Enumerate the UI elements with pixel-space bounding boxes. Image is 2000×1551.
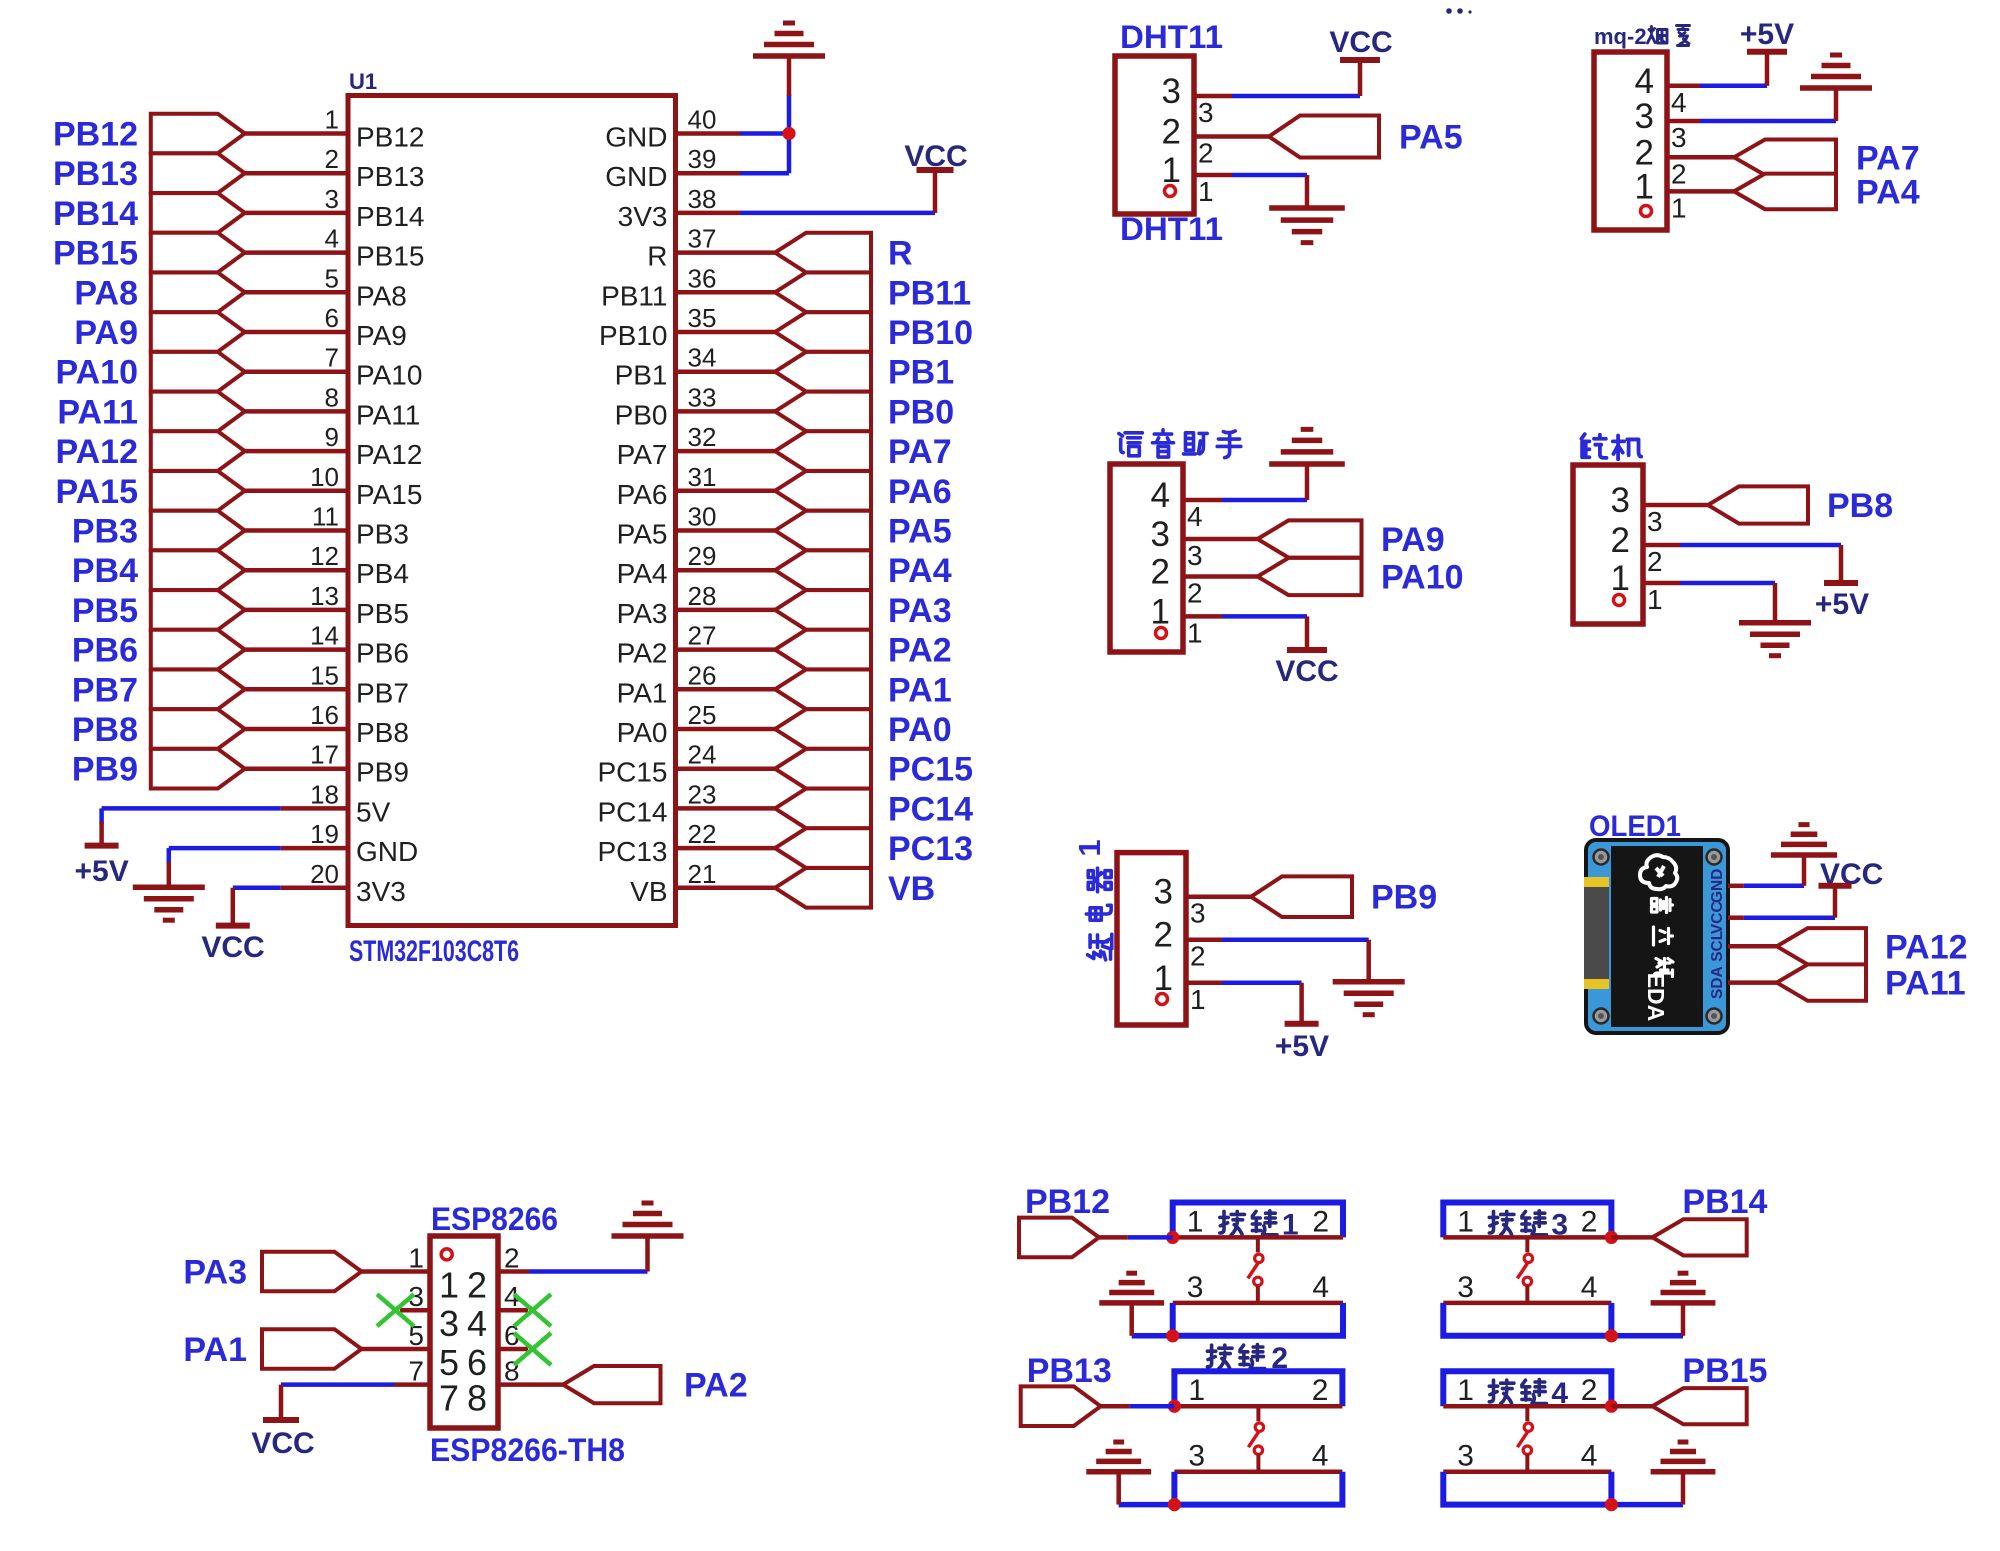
svg-text:PA8: PA8 <box>356 280 407 311</box>
button1 按键1 wire button bottom loop (blue) <box>1173 1303 1343 1336</box>
wire pin 9 to port flag <box>245 449 348 454</box>
port flag PA6 (right, pin 31) <box>775 471 871 511</box>
wire pin 34 to port flag <box>676 369 776 374</box>
button2 按键2 ground (button2 按键2) <box>1086 1469 1151 1475</box>
wire pin 40 blue <box>740 131 789 136</box>
svg-text:ESP8266: ESP8266 <box>431 1201 558 1237</box>
wire pin 25 to port flag <box>676 727 776 732</box>
ground (servo) <box>1739 620 1811 626</box>
svg-text:3: 3 <box>1457 1271 1474 1304</box>
wire pin 19 blue <box>169 846 281 851</box>
svg-text:PA4: PA4 <box>1856 173 1920 211</box>
svg-text:30: 30 <box>688 502 717 532</box>
svg-text:3: 3 <box>1187 540 1203 571</box>
wire DHT11 pin3 blue <box>1232 94 1360 99</box>
svg-text:PB12: PB12 <box>53 116 138 154</box>
wire relay +5V drop <box>1299 983 1304 1024</box>
svg-text:PA10: PA10 <box>1381 559 1464 597</box>
svg-text:PB4: PB4 <box>356 558 409 589</box>
svg-text:SDA: SDA <box>1709 966 1726 999</box>
wire servo pin1 stub <box>1643 581 1680 586</box>
button2 按键2 button label 按键2 <box>1207 1345 1232 1368</box>
OLED1 logo (JLC cloud) <box>1640 855 1677 889</box>
svg-text:PA6: PA6 <box>617 479 668 510</box>
svg-text:4: 4 <box>1151 476 1170 515</box>
wire servo pin2 stub <box>1643 543 1680 548</box>
svg-text:PB13: PB13 <box>1027 1352 1112 1390</box>
wire pin 23 to port flag <box>676 806 776 811</box>
wire pin 16 to port flag <box>245 727 348 732</box>
svg-text:3: 3 <box>439 1303 459 1344</box>
svg-text:+5V: +5V <box>74 855 128 888</box>
svg-text:1: 1 <box>1671 192 1687 223</box>
port flag PA1 <box>262 1329 362 1369</box>
button2 按键2 wire button top loop (blue) <box>1174 1371 1342 1406</box>
svg-text:PA5: PA5 <box>617 519 668 550</box>
wire OLED GND blue <box>1744 884 1804 889</box>
button1 按键1 junction button1 按键1 pin3-4 <box>1166 1329 1179 1342</box>
svg-text:PB9: PB9 <box>72 751 138 789</box>
wire ESP pin7 stub <box>394 1382 430 1387</box>
svg-text:2: 2 <box>1581 1205 1598 1238</box>
OLED1 screen text 嘉立创EDA (vertical) <box>1652 898 1673 913</box>
button3 按键3 wire gnd riser <box>1681 1303 1686 1336</box>
wire voice pin3 to flag <box>1183 537 1258 542</box>
port flag PA3 (right, pin 28) <box>775 590 871 630</box>
power flag +5V (left) <box>85 843 119 849</box>
port flag PA3 <box>262 1252 362 1292</box>
svg-text:1: 1 <box>1198 176 1214 207</box>
svg-text:PB7: PB7 <box>72 671 138 709</box>
OLED1 corner screws <box>1594 850 1609 865</box>
wire servo pin2 blue <box>1680 543 1841 548</box>
port flag PB14 (left, pin 3) <box>151 193 245 233</box>
svg-text:PA3: PA3 <box>183 1254 247 1292</box>
wire pin 18 stub <box>281 806 348 811</box>
power flag VCC (ESP8266) <box>263 1417 299 1423</box>
svg-text:7: 7 <box>408 1356 424 1387</box>
wire ESP pin2 blue <box>529 1269 648 1274</box>
wire pin 27 to port flag <box>676 647 776 652</box>
wire MQ-2 gnd riser <box>1834 88 1839 121</box>
port flag PA9 (left, pin 6) <box>151 312 245 352</box>
svg-text:3: 3 <box>1611 481 1630 520</box>
wire pin 35 to port flag <box>676 330 776 335</box>
svg-text:PB13: PB13 <box>356 161 425 192</box>
wire PA1 to ESP pin5 <box>362 1347 431 1352</box>
port flag PA8 (left, pin 5) <box>151 273 245 313</box>
svg-text:PA1: PA1 <box>183 1331 247 1369</box>
svg-text:31: 31 <box>688 462 717 492</box>
svg-text:PB14: PB14 <box>53 195 138 233</box>
wire PA3 to ESP pin1 <box>362 1269 431 1274</box>
svg-text:VCC: VCC <box>251 1427 314 1460</box>
svg-text:PB11: PB11 <box>888 274 971 312</box>
wire MQ-2 pin1 to flag <box>1667 189 1734 194</box>
button3 按键3 wire gnd branch (blue) <box>1443 1333 1683 1339</box>
wire servo pin1 blue <box>1680 581 1775 586</box>
svg-text:R: R <box>888 235 913 273</box>
wire DHT11 VCC riser <box>1358 60 1363 96</box>
svg-text:PB6: PB6 <box>72 632 138 670</box>
svg-text:3: 3 <box>1190 898 1206 929</box>
svg-text:20: 20 <box>310 859 339 889</box>
svg-text:4: 4 <box>1581 1440 1598 1473</box>
button1 按键1 junction button1 按键1 pin1-2 <box>1166 1231 1179 1244</box>
svg-text:PA2: PA2 <box>617 638 668 669</box>
svg-text:26: 26 <box>688 660 717 690</box>
connector voice-assistant body <box>1110 464 1183 652</box>
svg-text:3: 3 <box>1187 1271 1204 1304</box>
port flag PC15 (right, pin 24) <box>775 749 871 789</box>
svg-text:3V3: 3V3 <box>618 201 668 232</box>
svg-text:PA7: PA7 <box>1856 139 1920 177</box>
svg-text:2: 2 <box>467 1265 487 1306</box>
svg-text:PA9: PA9 <box>74 314 138 352</box>
power flag VCC (voice) <box>1287 647 1327 653</box>
svg-text:PA3: PA3 <box>888 592 952 630</box>
svg-text:1: 1 <box>1457 1374 1474 1407</box>
svg-text:PA11: PA11 <box>57 393 138 431</box>
ground (voice-assistant) <box>1269 461 1345 467</box>
svg-text:PC14: PC14 <box>597 796 667 827</box>
svg-text:2: 2 <box>1187 578 1203 609</box>
svg-text:1: 1 <box>1647 584 1663 615</box>
button4 按键4 junction button4 按键4 pin1-2 <box>1605 1400 1618 1413</box>
wire relay gnd drop <box>1366 940 1371 982</box>
wire pin 4 to port flag <box>245 250 348 255</box>
svg-text:VCC: VCC <box>1709 901 1726 934</box>
svg-text:2: 2 <box>1190 941 1206 972</box>
svg-text:PB13: PB13 <box>53 155 138 193</box>
svg-text:21: 21 <box>688 859 717 889</box>
svg-text:2: 2 <box>325 144 339 174</box>
svg-text:4: 4 <box>1581 1271 1598 1304</box>
svg-text:12: 12 <box>310 541 339 571</box>
connector DHT11 body <box>1115 56 1194 214</box>
button1 按键1 switch pins 3-4 line <box>1173 1301 1343 1306</box>
svg-text:1: 1 <box>1187 1205 1204 1238</box>
ground (OLED) <box>1771 852 1837 858</box>
svg-text:PA1: PA1 <box>617 677 668 708</box>
button4 按键4 switch pins 3-4 line <box>1443 1469 1611 1474</box>
svg-text:37: 37 <box>688 224 717 254</box>
svg-text:PA10: PA10 <box>55 354 138 392</box>
port flag PA10 <box>1258 558 1362 595</box>
wire ESP pin6 stub <box>498 1347 528 1352</box>
svg-text:PB3: PB3 <box>72 513 138 551</box>
wire ESP pin4 stub <box>498 1308 528 1313</box>
wire relay pin1 blue <box>1222 981 1302 986</box>
power flag +5V (MQ-2) <box>1747 49 1787 55</box>
button1 按键1 wire button top loop (blue) <box>1173 1203 1343 1238</box>
svg-text:PA0: PA0 <box>617 717 668 748</box>
svg-text:+5V: +5V <box>1275 1030 1329 1063</box>
svg-text:18: 18 <box>310 779 339 809</box>
wire pin 10 to port flag <box>245 489 348 494</box>
svg-text:PB7: PB7 <box>356 677 409 708</box>
svg-text:PA4: PA4 <box>888 552 952 590</box>
button2 按键2 switch pins 1-2 line <box>1174 1404 1342 1409</box>
port flag PA15 (left, pin 10) <box>151 471 245 511</box>
wire ESP pin8 to flag <box>498 1382 563 1387</box>
power flag VCC (right of U1) <box>917 167 954 173</box>
svg-text:3: 3 <box>1198 97 1214 128</box>
wire MQ-2 pin3 blue <box>1700 119 1836 124</box>
svg-text:8: 8 <box>467 1378 487 1419</box>
button2 按键2 junction button2 按键2 pin1-2 <box>1168 1400 1181 1413</box>
button1 按键1 port flag PB12 <box>1019 1218 1099 1258</box>
port flag PB8 <box>1708 486 1808 523</box>
button4 按键4 wire button bottom loop (blue) <box>1443 1472 1611 1505</box>
svg-text:3: 3 <box>1151 515 1170 554</box>
svg-text:35: 35 <box>688 303 717 333</box>
svg-text:PA5: PA5 <box>888 513 952 551</box>
wire DHT11 pin1 stub <box>1194 173 1232 178</box>
button2 按键2 wire gnd branch (blue) <box>1119 1502 1175 1508</box>
svg-text:7: 7 <box>325 343 339 373</box>
svg-text:2: 2 <box>1312 1205 1329 1238</box>
ground (MQ-2, above wire) <box>1800 85 1872 91</box>
svg-text:38: 38 <box>688 184 717 214</box>
wire pin 3 to port flag <box>245 211 348 216</box>
button3 按键3 port flag PB14 <box>1652 1219 1746 1255</box>
port flag PB8 (left, pin 16) <box>151 709 245 749</box>
svg-text:32: 32 <box>688 422 717 452</box>
svg-text:PA11: PA11 <box>356 399 420 430</box>
button1 按键1 ground (button1 按键1) <box>1099 1300 1164 1306</box>
port flag PB7 (left, pin 15) <box>151 670 245 710</box>
svg-text:1: 1 <box>439 1265 459 1306</box>
button4 按键4 switch pins 1-2 line <box>1443 1404 1611 1409</box>
svg-text:PB11: PB11 <box>601 280 667 311</box>
wire pin 14 to port flag <box>245 647 348 652</box>
button2 按键2 port flag PB13 <box>1021 1386 1101 1426</box>
wire voice pin4 stub <box>1183 498 1222 503</box>
svg-text:3V3: 3V3 <box>356 876 406 907</box>
svg-text:PA4: PA4 <box>617 558 668 589</box>
svg-text:1: 1 <box>1190 984 1206 1015</box>
button4 按键4 port flag PB15 <box>1652 1388 1746 1424</box>
svg-text:+5V: +5V <box>1740 18 1794 51</box>
wire pin 32 to port flag <box>676 449 776 454</box>
svg-text:2: 2 <box>1151 553 1170 592</box>
button2 按键2 wire flag to junction <box>1101 1404 1130 1409</box>
wire ESP gnd riser <box>645 1236 650 1272</box>
wire ESP pin3 stub <box>400 1308 430 1313</box>
connector MQ-2 body <box>1594 52 1667 230</box>
relay pin 1 indicator <box>1157 994 1168 1005</box>
svg-text:PA3: PA3 <box>617 598 668 629</box>
port flag VB (right, pin 21) <box>775 868 871 908</box>
ESP8266 pin 1 indicator <box>441 1249 452 1260</box>
IC U1 STM32F103C8T6 body <box>348 96 676 926</box>
port flag PA10 (left, pin 7) <box>151 352 245 392</box>
decor dots <box>1446 8 1452 14</box>
svg-text:4: 4 <box>1312 1440 1329 1473</box>
svg-text:VCC: VCC <box>201 931 264 964</box>
wire MQ-2 pin4 blue <box>1700 84 1767 89</box>
svg-text:1: 1 <box>1635 167 1654 206</box>
svg-text:7: 7 <box>439 1378 459 1419</box>
button4 按键4 ground (button4 按键4) <box>1651 1469 1716 1475</box>
port flag PA2 (right, pin 27) <box>775 630 871 670</box>
wire pin 39 stub <box>676 171 741 176</box>
wire pin 18 blue <box>102 806 281 811</box>
port flag PB0 (right, pin 33) <box>775 392 871 432</box>
wire pin 7 to port flag <box>245 369 348 374</box>
port flag PA5 (right, pin 30) <box>775 511 871 551</box>
svg-text:5V: 5V <box>356 796 391 827</box>
svg-text:R: R <box>647 241 667 272</box>
svg-text:PA6: PA6 <box>888 473 952 511</box>
port flag PB5 (left, pin 13) <box>151 590 245 630</box>
wire pin 11 to port flag <box>245 528 348 533</box>
svg-text:1: 1 <box>1151 592 1170 631</box>
button4 按键4 wire gnd riser <box>1681 1472 1686 1505</box>
svg-text:3: 3 <box>1188 1440 1205 1473</box>
power flag VCC (left) <box>216 923 250 929</box>
port flag R (right, pin 37) <box>775 233 871 273</box>
svg-text:PB4: PB4 <box>72 552 138 590</box>
svg-text:17: 17 <box>310 740 339 770</box>
wire MQ-2 +5V riser <box>1765 52 1770 86</box>
button3 按键3 switch actuator <box>1525 1237 1529 1252</box>
wire servo pin3 to flag <box>1643 503 1708 508</box>
wire pin 39 blue <box>740 171 789 176</box>
ground (ESP8266) <box>612 1233 684 1239</box>
junction GND node <box>782 127 795 140</box>
svg-text:PB9: PB9 <box>1371 879 1437 917</box>
svg-text:U1: U1 <box>349 69 377 94</box>
svg-text:GND: GND <box>605 122 667 153</box>
wire pin 8 to port flag <box>245 409 348 414</box>
wire VCC riser <box>933 170 938 213</box>
svg-text:SCL: SCL <box>1709 931 1726 962</box>
svg-text:29: 29 <box>688 541 717 571</box>
ground (top, above U1) <box>753 53 825 59</box>
port flag PA5 <box>1269 116 1379 158</box>
wire voice VCC drop <box>1305 616 1310 650</box>
port flag PB15 (left, pin 4) <box>151 233 245 273</box>
svg-text:19: 19 <box>310 819 339 849</box>
svg-text:PB9: PB9 <box>356 757 409 788</box>
wire relay pin1 stub <box>1186 981 1222 986</box>
wire pin 22 to port flag <box>676 846 776 851</box>
svg-text:STM32F103C8T6: STM32F103C8T6 <box>349 935 519 968</box>
button4 按键4 switch actuator <box>1525 1406 1529 1421</box>
wire OLED gnd riser <box>1802 855 1807 886</box>
svg-text:8: 8 <box>325 382 339 412</box>
svg-text:GND: GND <box>356 836 418 867</box>
connector relay body <box>1117 853 1186 1025</box>
wire pin 40 stub <box>676 131 741 136</box>
connector voice-assistant title 语音助手 <box>1119 433 1143 456</box>
svg-text:PA9: PA9 <box>356 320 407 351</box>
svg-text:3: 3 <box>1162 72 1181 111</box>
port flag PB12 (left, pin 1) <box>151 114 245 154</box>
ground (below pin 19) <box>133 884 205 890</box>
wire pin 26 to port flag <box>676 687 776 692</box>
svg-text:DHT11: DHT11 <box>1120 19 1223 55</box>
ground (DHT11) <box>1269 205 1345 211</box>
wire MQ-2 pin4 stub <box>1667 84 1700 89</box>
svg-text:2: 2 <box>1581 1374 1598 1407</box>
port flag PB13 (left, pin 2) <box>151 153 245 193</box>
power flag +5V (servo) <box>1824 580 1858 586</box>
svg-text:25: 25 <box>688 700 717 730</box>
button1 按键1 button label 按键1 <box>1220 1211 1245 1234</box>
svg-text:PB12: PB12 <box>1025 1183 1110 1221</box>
port flag PB11 (right, pin 36) <box>775 273 871 313</box>
wire DHT11 gnd drop <box>1305 175 1310 208</box>
no-connect X pin3 <box>377 1294 414 1326</box>
wire pin 20 stub <box>281 886 348 891</box>
port flag PA1 (right, pin 26) <box>775 670 871 710</box>
svg-text:GND: GND <box>1709 869 1726 903</box>
ground (relay) <box>1333 979 1405 985</box>
button3 按键3 ground (button3 按键3) <box>1651 1300 1716 1306</box>
svg-text:PC15: PC15 <box>888 751 973 789</box>
svg-text:4: 4 <box>467 1303 487 1344</box>
port flag PB6 (left, pin 14) <box>151 630 245 670</box>
port flag PA4 (right, pin 29) <box>775 550 871 590</box>
svg-text:11: 11 <box>312 502 339 532</box>
svg-text:VCC: VCC <box>904 140 967 173</box>
wire voice pin1 blue <box>1222 614 1307 619</box>
wire OLED VCC stub <box>1728 915 1744 920</box>
svg-text:4: 4 <box>1187 501 1203 532</box>
svg-text:PB12: PB12 <box>356 122 425 153</box>
wire pin 37 to port flag <box>676 250 776 255</box>
wire ESP VCC drop <box>279 1385 284 1420</box>
MQ-2 pin 1 indicator <box>1641 206 1652 217</box>
button3 按键3 wire flag to junction <box>1611 1235 1652 1240</box>
port flag PA11 (left, pin 8) <box>151 392 245 432</box>
svg-text:VCC: VCC <box>1275 655 1338 688</box>
wire pin 24 to port flag <box>676 766 776 771</box>
svg-text:3: 3 <box>1671 122 1687 153</box>
port flag PA7 <box>1734 140 1836 176</box>
wire ESP pin7 blue <box>281 1382 394 1387</box>
svg-text:39: 39 <box>688 144 717 174</box>
svg-text:PA7: PA7 <box>617 439 668 470</box>
svg-text:2: 2 <box>1312 1374 1329 1407</box>
button1 按键1 switch pins 1-2 line <box>1173 1235 1343 1240</box>
wire servo +5V drop <box>1839 545 1844 583</box>
svg-text:3: 3 <box>1647 506 1663 537</box>
svg-text:PA2: PA2 <box>684 1367 748 1405</box>
svg-text:40: 40 <box>688 105 717 135</box>
svg-text:2: 2 <box>1198 138 1214 169</box>
svg-text:PB14: PB14 <box>1682 1183 1767 1221</box>
wire MQ-2 pin3 stub <box>1667 119 1700 124</box>
svg-text:9: 9 <box>325 422 339 452</box>
power flag VCC (DHT11) <box>1340 57 1380 63</box>
svg-text:DHT11: DHT11 <box>1120 211 1223 247</box>
wire ESP pin2 stub <box>498 1269 529 1274</box>
wire voice pin4 blue <box>1222 498 1307 503</box>
wire OLED SDA to flag <box>1728 980 1777 985</box>
svg-text:1: 1 <box>1611 559 1630 598</box>
button3 按键3 switch pins 1-2 line <box>1443 1235 1611 1240</box>
svg-text:PB14: PB14 <box>356 201 425 232</box>
OLED1 board <box>1586 840 1728 1033</box>
port flag PA2 <box>563 1366 661 1403</box>
wire +5V vertical <box>99 808 104 824</box>
svg-text:+5V: +5V <box>1815 588 1869 621</box>
svg-text:PB1: PB1 <box>888 354 954 392</box>
